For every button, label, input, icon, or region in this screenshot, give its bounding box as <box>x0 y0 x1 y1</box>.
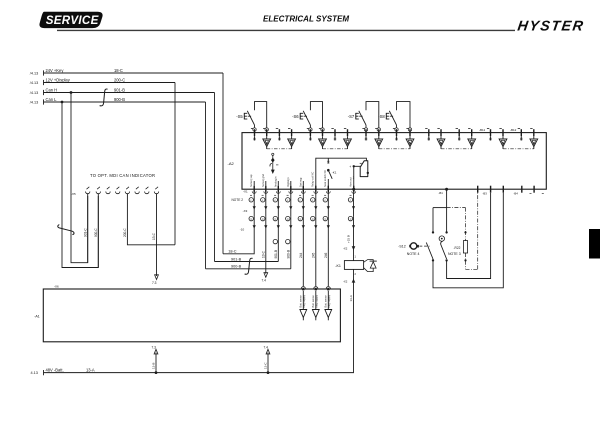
switch -S5 jumper loop <box>255 102 267 129</box>
svg-text:4.13: 4.13 <box>31 371 38 375</box>
wire 18-C horizontal 24V +Key <box>44 72 224 74</box>
svg-text:C: C <box>262 218 264 221</box>
svg-text:-B1: -B1 <box>439 191 444 195</box>
bus junction at 446.6 <box>445 188 448 191</box>
switch -S8 jumper loop <box>397 102 411 129</box>
svg-text:12V +Display: 12V +Display <box>46 77 71 82</box>
column 2 wire with off-page arrow /7.4 <box>265 217 267 274</box>
column 5 connector ring row1 <box>298 198 302 202</box>
svg-text:7.3: 7.3 <box>152 281 157 285</box>
bottom pin 7 of -A2 <box>327 186 329 193</box>
svg-text:200-C: 200-C <box>114 77 125 82</box>
wire 901-C upper segment <box>87 194 89 263</box>
column 6 connector ring row2 <box>311 216 315 220</box>
svg-text:13-C: 13-C <box>262 250 266 258</box>
svg-text:C: C <box>350 218 352 221</box>
column 2 connector ring row1 <box>261 198 265 202</box>
svg-text:+: + <box>349 165 351 169</box>
svg-text:900-C: 900-C <box>94 228 98 237</box>
connector socket pin 8 <box>154 192 158 194</box>
svg-text:13-A: 13-A <box>349 295 353 301</box>
page edge tab <box>589 229 600 259</box>
top pin 18 of -A2 <box>502 129 504 136</box>
wire 13-C drop from socket 8 with off-page arrow /7.3 <box>156 194 158 277</box>
wire 901-C branch (Can H down-left) <box>71 93 88 263</box>
internal wire loop to horn <box>316 158 367 189</box>
bottom pin 8 of -A2 <box>353 186 355 193</box>
svg-text:/4.13: /4.13 <box>30 71 38 75</box>
switch pole 1 <box>432 231 434 233</box>
svg-text:/4.13: /4.13 <box>30 91 38 95</box>
column 1 wire 18-C routing <box>223 217 254 254</box>
dash-dot from resistor to bus stub <box>465 253 467 269</box>
bottom pin 1 of -A2 <box>253 186 255 193</box>
svg-text:neg supply: neg supply <box>327 294 331 307</box>
svg-text:7.3: 7.3 <box>152 345 157 349</box>
svg-text:NOTE 3: NOTE 3 <box>448 252 461 256</box>
svg-text:C: C <box>325 218 327 221</box>
svg-text:/4.13: /4.13 <box>30 100 38 104</box>
column 7 connector ring row1 <box>323 198 327 202</box>
sensor arrow symbol inside -A2 <box>272 153 274 155</box>
column 2 connector ring row2 <box>261 216 265 220</box>
switch pole 1 return wire <box>433 193 503 288</box>
bus junction at relay column <box>352 188 355 191</box>
column 4 connector ring row2 <box>286 216 290 220</box>
top pin 7 of -A2 <box>334 129 336 136</box>
buffer triangle 2 inside -A2 <box>291 136 293 139</box>
horn feed wire from pin <box>354 166 360 189</box>
column 5 wire to -A1 <box>302 217 304 286</box>
junction Can H <box>70 91 73 94</box>
twisted pair symbol on 901-B/900-B returns <box>245 258 253 274</box>
wire 900-C branch (Can L down-left) <box>62 102 98 268</box>
wire 900-C upper segment <box>97 194 99 268</box>
bottom pin 3 of -A2 <box>277 186 279 193</box>
svg-text:-B4: -B4 <box>514 192 519 196</box>
column 4 ring row3 <box>290 217 292 269</box>
svg-text:900-B: 900-B <box>287 250 291 259</box>
svg-text:-S7: -S7 <box>348 114 355 119</box>
bottom pin 2 of -A2 <box>265 186 267 193</box>
svg-text:-S5: -S5 <box>236 114 243 119</box>
buffer triangle 5 inside -A2 <box>378 136 380 139</box>
top pin 6 of -A2 <box>322 129 324 136</box>
wire 901-B horizontal Can H <box>44 92 215 94</box>
top pin 1 inner stub <box>254 136 256 140</box>
top pin 15 inner stub <box>458 136 460 140</box>
bus junction riser 7.3 <box>155 371 158 374</box>
dash-dot link triangles pair 3 <box>379 148 410 150</box>
controller box -A2 <box>242 133 546 190</box>
svg-text:Batt neg: Batt neg <box>299 177 302 187</box>
indicator circle with dot <box>439 236 444 241</box>
switch -S8 blade <box>396 125 398 128</box>
twisted-pair symbol on 901-C/900-C verticals <box>58 225 74 235</box>
riser /7.3 below -A1 <box>155 353 157 373</box>
switch -S6 blade <box>309 125 311 128</box>
svg-text:-X2: -X2 <box>343 279 348 283</box>
svg-text:13-C: 13-C <box>264 362 268 369</box>
svg-text:-B12: -B12 <box>510 128 517 132</box>
controller box -A1 <box>43 289 340 342</box>
svg-text:/4.13: /4.13 <box>30 81 38 85</box>
switch pole 2 return wire <box>447 193 491 279</box>
svg-text:C: C <box>275 218 277 221</box>
svg-text:-K1: -K1 <box>332 171 337 175</box>
bottom pin 5 of -A2 <box>302 186 304 193</box>
switch pole 2 blade <box>445 259 447 261</box>
wire 900-B horizontal Can L <box>44 101 206 103</box>
relay column below coil <box>353 269 355 372</box>
inline connector arrow lower <box>352 279 356 283</box>
top pin 10 of -A2 <box>378 129 380 136</box>
top pin 7 inner stub <box>334 136 336 140</box>
buffer triangle 7 inside -A2 <box>440 136 442 139</box>
horn -H1 inside -A2 <box>360 161 368 177</box>
terminal ring -A1 column 1 <box>301 287 305 289</box>
buffer triangle 9 inside -A2 <box>502 136 504 139</box>
bottom pin inner stub <box>302 181 304 186</box>
svg-text:neg supply: neg supply <box>302 294 306 307</box>
top pin 16 of -A2 <box>471 129 473 136</box>
svg-text:Relay coil NC: Relay coil NC <box>312 172 315 187</box>
svg-text:13-B: 13-B <box>152 363 156 369</box>
svg-text:Digital in: Digital in <box>287 177 290 187</box>
bottom edge pin x=477.7 <box>477 186 479 193</box>
svg-text:7.4: 7.4 <box>262 279 267 283</box>
connector socket pin 4 <box>116 192 120 194</box>
buffer triangle 3 inside -A2 <box>322 136 324 139</box>
bottom pin inner stub <box>290 181 292 186</box>
top pin 13 inner stub <box>428 136 430 140</box>
bottom edge pin x=534.1 <box>533 186 535 193</box>
wire 18-C vertical drop <box>222 73 224 254</box>
bottom pin inner stub <box>253 181 255 186</box>
svg-text:ELECTRICAL SYSTEM: ELECTRICAL SYSTEM <box>263 15 349 24</box>
svg-text:-B3: -B3 <box>483 192 488 196</box>
svg-text:neg supply: neg supply <box>315 294 319 307</box>
top pin 2 of -A2 <box>266 129 268 136</box>
top pin 9 inner stub <box>365 136 367 140</box>
suppression diode across coil <box>364 260 374 263</box>
switch -S5 blade <box>254 125 256 128</box>
svg-text:-S6: -S6 <box>292 114 299 119</box>
svg-text:C: C <box>250 218 252 221</box>
svg-text:Analog in: Analog in <box>274 176 277 187</box>
top pin 17 inner stub <box>490 136 492 140</box>
svg-text:C: C <box>300 218 302 221</box>
top pin 5 of -A2 <box>309 129 311 136</box>
-A1 internal arrow column 2 <box>315 291 317 310</box>
SERVICE badge <box>40 12 102 27</box>
-A1 internal arrow column 1 <box>302 291 304 310</box>
svg-text:48V -Batt.: 48V -Batt. <box>46 367 64 372</box>
wire 900-B horizontal return <box>206 268 291 270</box>
bottom edge pin x=521.8 <box>521 186 523 193</box>
column 4 connector ring row1 <box>286 198 290 202</box>
twisted-pair symbol on Can lines <box>100 89 108 106</box>
svg-text:-S8: -S8 <box>378 114 385 119</box>
svg-text:+15 B: +15 B <box>347 235 351 243</box>
svg-text:Batt sense: Batt sense <box>299 295 303 308</box>
bottom edge pin x=503.3 <box>502 186 504 193</box>
column 3 ring row3 <box>277 217 279 262</box>
wire 200-C vertical drop <box>174 83 176 245</box>
svg-text:SERVICE: SERVICE <box>46 14 100 27</box>
buffer triangle 4 inside -A2 <box>347 136 349 139</box>
svg-text:TO OPT. MDI CAN INDICATOR: TO OPT. MDI CAN INDICATOR <box>90 173 155 178</box>
wire pole1 top to bus column <box>432 208 434 231</box>
top pin 1 of -A2 <box>254 129 256 136</box>
svg-text:901-B: 901-B <box>114 87 125 92</box>
top pin 5 inner stub <box>309 136 311 140</box>
wire 901-B vertical drop (Can H) <box>214 93 216 262</box>
header rule <box>57 29 515 31</box>
switch -S7 jumper loop <box>366 102 379 129</box>
svg-text:246: 246 <box>324 252 328 258</box>
top pin 3 inner stub <box>278 136 280 140</box>
column 1 connector ring row2 <box>249 216 253 220</box>
bottom pin inner stub <box>277 181 279 186</box>
svg-text:-X1: -X1 <box>243 190 248 194</box>
svg-text:-10: -10 <box>240 228 245 232</box>
svg-text:-X5: -X5 <box>71 192 76 196</box>
buffer triangle 1 inside -A2 <box>266 136 268 139</box>
top pin 9 of -A2 <box>365 129 367 136</box>
riser /7.4 below -A1 <box>267 353 269 373</box>
relay coil -K1 <box>344 261 363 270</box>
svg-text:245: 245 <box>312 252 316 258</box>
connector socket pin 3 <box>106 192 110 194</box>
bottom pin inner stub <box>265 181 267 186</box>
svg-text:Batt sense: Batt sense <box>324 295 328 308</box>
svg-text:13-A: 13-A <box>86 367 95 372</box>
svg-text:18-C: 18-C <box>228 250 236 254</box>
buffer triangle 10 inside -A2 <box>533 136 535 139</box>
dash-dot link triangles pair 5 <box>503 148 534 150</box>
svg-text:24V +Key: 24V +Key <box>46 68 65 73</box>
svg-text:-X3: -X3 <box>243 209 248 213</box>
svg-text:NOTE 4: NOTE 4 <box>407 252 420 256</box>
svg-text:Seat switch NC: Seat switch NC <box>324 170 327 187</box>
svg-text:901-B: 901-B <box>231 257 242 261</box>
column 3 connector ring row1 <box>273 198 277 202</box>
connector socket pin 5 <box>125 192 129 194</box>
svg-text:901-C: 901-C <box>84 228 88 237</box>
svg-text:-K1: -K1 <box>335 264 341 268</box>
dash-dot link triangles pair 2 <box>323 148 348 150</box>
inline connector arrow upper <box>352 246 356 250</box>
wire 200-C drop from socket 5 <box>127 194 175 245</box>
switch -S7 blade <box>365 125 367 128</box>
-A1 internal arrow column 3 <box>327 291 329 310</box>
relay column wire <box>353 217 355 261</box>
bottom pin 6 of -A2 <box>315 186 317 193</box>
wire 13-A bottom bus <box>44 372 354 374</box>
connector socket pin 7 <box>145 192 149 194</box>
column 6 connector ring row1 <box>311 198 315 202</box>
svg-text:C: C <box>312 218 314 221</box>
top pin 3 of -A2 <box>278 129 280 136</box>
switch pole 2 feed from bus <box>446 189 448 232</box>
top pin 17 of -A2 <box>490 129 492 136</box>
relay contact -K1 inside -A2 <box>327 158 329 163</box>
svg-text:Can L: Can L <box>46 97 58 102</box>
connector socket pin 1 <box>86 192 90 194</box>
switch -S6 jumper loop <box>310 102 322 129</box>
column 6 wire to -A1 <box>315 217 317 286</box>
terminal ring -A1 column 2 <box>314 287 318 289</box>
svg-text:901-B: 901-B <box>274 250 278 259</box>
buffer triangle 6 inside -A2 <box>409 136 411 139</box>
top pin 15 of -A2 <box>458 129 460 136</box>
svg-text:-A1: -A1 <box>34 315 40 319</box>
dash-dot link triangles pair 4 <box>441 148 472 150</box>
bottom edge pin x=490.6 <box>490 186 492 193</box>
svg-text:-S12: -S12 <box>398 245 406 249</box>
top pin 13 of -A2 <box>428 129 430 136</box>
svg-text:900-B: 900-B <box>231 265 242 269</box>
wire 901-B horizontal return <box>215 261 279 263</box>
connector socket pin 6 <box>135 192 139 194</box>
mechanical linkage dash line <box>420 245 430 247</box>
top pin 14 of -A2 <box>440 129 442 136</box>
column 7 connector ring row2 <box>323 216 327 220</box>
bus junction riser 7.4 <box>267 371 270 374</box>
svg-text:NOTE 2: NOTE 2 <box>232 198 244 202</box>
top pin 20 of -A2 <box>533 129 535 136</box>
column 5 connector ring row2 <box>298 216 302 220</box>
svg-text:18-C: 18-C <box>114 68 123 73</box>
column 8 connector ring row1 <box>348 198 352 202</box>
svg-text:C: C <box>287 218 289 221</box>
svg-text:900-B: 900-B <box>114 97 125 102</box>
svg-text:-A2: -A2 <box>228 161 235 166</box>
top pin 4 of -A2 <box>291 129 293 136</box>
wire 200-C horizontal 12V +Display <box>44 82 176 84</box>
junction Can L <box>61 101 64 104</box>
svg-text:-X2: -X2 <box>343 246 348 250</box>
top pin 19 inner stub <box>520 136 522 140</box>
top pin 12 of -A2 <box>409 129 411 136</box>
wire 900-B vertical drop (Can L) <box>205 102 207 269</box>
top pin 11 inner stub <box>396 136 398 140</box>
bus corner up to relay <box>353 372 355 374</box>
top pin 19 of -A2 <box>520 129 522 136</box>
svg-text:-X6: -X6 <box>54 285 59 289</box>
svg-text:Horn out: Horn out <box>350 177 353 187</box>
column 3 connector ring row2 <box>273 216 277 220</box>
svg-text:-R22: -R22 <box>454 246 461 250</box>
svg-text:Can H: Can H <box>46 87 58 92</box>
svg-text:244: 244 <box>299 252 303 258</box>
svg-text:-B11: -B11 <box>479 128 485 132</box>
dash-dot link triangles pair 1 <box>267 148 292 150</box>
column 1 connector ring row1 <box>249 198 253 202</box>
svg-text:Batt sense: Batt sense <box>311 295 315 308</box>
dash-dot link to resistor -R22 <box>447 207 466 209</box>
bottom pin 4 of -A2 <box>290 186 292 193</box>
connector socket pin 2 <box>96 192 100 194</box>
terminal ring -A1 column 3 <box>326 287 330 289</box>
column 8 connector ring row2 <box>348 216 352 220</box>
column 7 wire to -A1 <box>327 217 329 286</box>
top pin 11 of -A2 <box>396 129 398 136</box>
svg-text:13-C: 13-C <box>152 232 156 240</box>
top pin 8 of -A2 <box>347 129 349 136</box>
svg-text:200-C: 200-C <box>123 228 127 237</box>
buffer triangle 8 inside -A2 <box>471 136 473 139</box>
svg-text:7.4: 7.4 <box>264 345 269 349</box>
